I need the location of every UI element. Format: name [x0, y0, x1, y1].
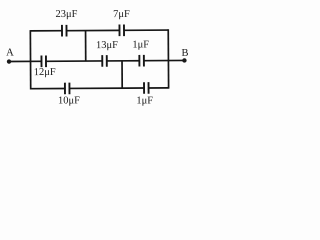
svg-text:B: B — [181, 48, 188, 59]
svg-text:A: A — [6, 47, 14, 58]
svg-text:12μF: 12μF — [34, 67, 56, 78]
svg-text:7μF: 7μF — [113, 9, 130, 20]
svg-text:1μF: 1μF — [136, 95, 153, 106]
svg-text:13μF: 13μF — [96, 40, 118, 51]
svg-text:1μF: 1μF — [132, 39, 149, 50]
svg-text:10μF: 10μF — [58, 95, 80, 106]
svg-text:23μF: 23μF — [55, 9, 77, 20]
